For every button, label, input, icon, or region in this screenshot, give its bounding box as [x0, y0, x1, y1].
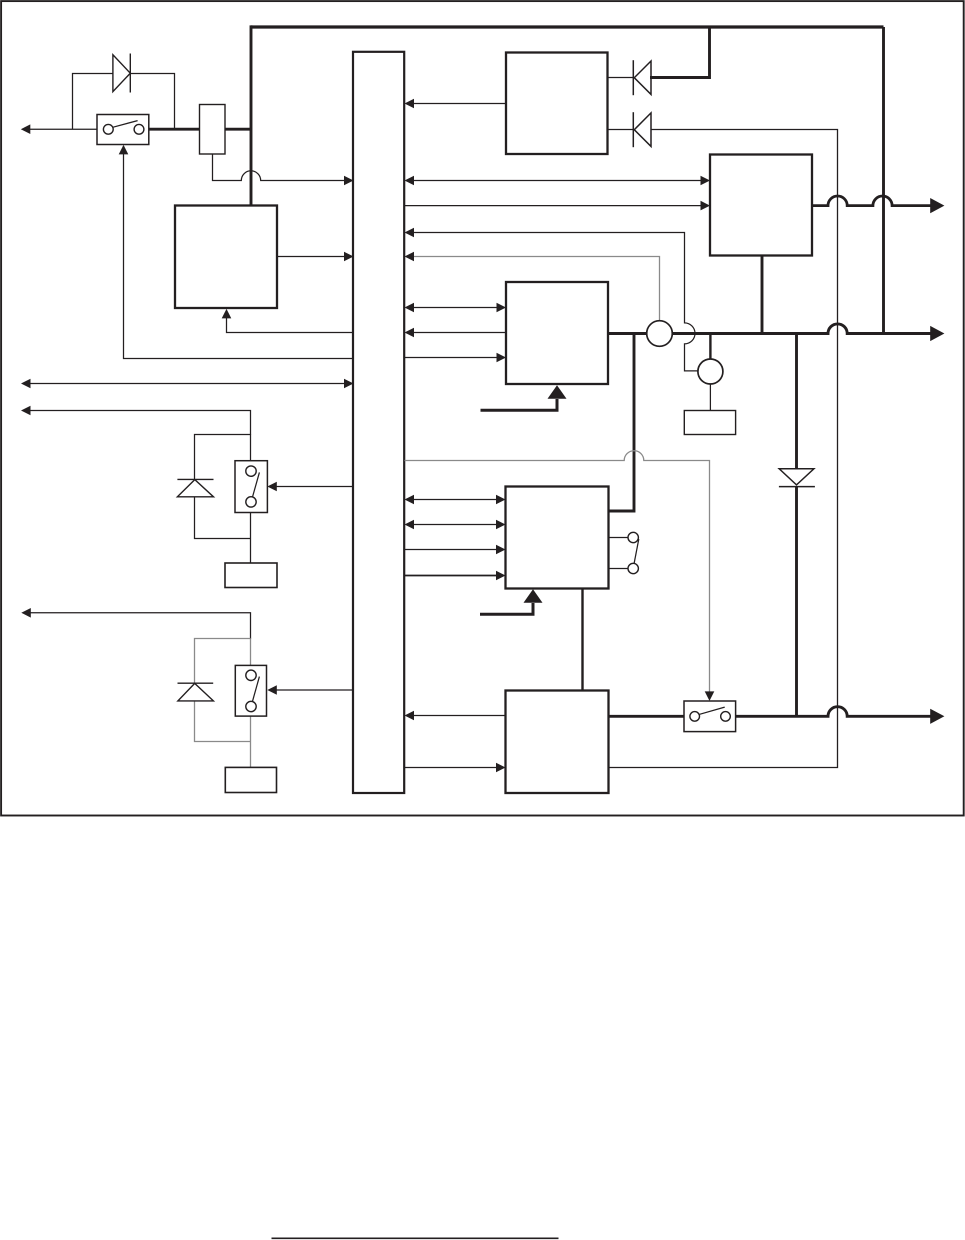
- wire: left output stub at switch S1: [29, 128, 97, 130]
- arrow left into bus y307.5: [405, 303, 415, 313]
- switch contacts S3 at B4 right: [609, 532, 639, 573]
- arrow left into bus y524.5: [405, 520, 415, 530]
- arrow left edge y410.5: [21, 406, 31, 416]
- wire: thick drop from rail to output bus O2: [882, 27, 885, 334]
- wire: D3 output right then long vertical down to block B5: [609, 130, 838, 768]
- switch S2 (G1): [235, 461, 267, 513]
- enable symbol into B4 bottom: [480, 603, 533, 614]
- arrow right into B3 y357.5: [497, 353, 507, 363]
- wire: B1 bottom control from main bus: [227, 314, 354, 333]
- circle C1 (on output bus O2): [647, 321, 673, 347]
- wire: S2 control from bus: [277, 486, 354, 488]
- arrow right into B2 y180.5: [701, 176, 711, 186]
- label box L2 (G2): [225, 767, 276, 792]
- wire: B1 output to main bus: [277, 256, 345, 258]
- wire: from component X1 bottom, hop over vertical, to main bus: [213, 154, 346, 181]
- wire: gray control from bus y460.5 hop over thick drop, down to switch S5: [405, 451, 710, 693]
- wire: bus y232.5 to circle C2 (corner, hop over O2): [413, 233, 698, 371]
- wire: left double arrow to bus y383.5: [29, 383, 345, 385]
- arrow left into bus y499.5: [405, 495, 415, 505]
- arrow right into main bus y180: [344, 176, 354, 186]
- switch S1: [97, 115, 149, 145]
- wire: left arrow from switch group G2 top y613: [29, 613, 251, 639]
- arrow left into S2: [267, 482, 277, 492]
- arrow right into B4 y499.5: [496, 495, 506, 505]
- switch S5 (on O3): [684, 701, 736, 732]
- wire: B5 output to bus y715.5: [413, 715, 506, 717]
- group G2 loop (gray): [195, 639, 251, 768]
- arrow output 1: [930, 198, 944, 213]
- arrow right into B3 y307.5: [497, 303, 507, 313]
- wire: bus to block B2 (double arrow y180.5): [413, 180, 701, 182]
- arrow up into B1 bottom: [222, 309, 232, 319]
- arrow left into S4: [267, 685, 277, 695]
- component X1 (small rectangle on thick wire): [200, 105, 226, 155]
- arrow left output S1: [21, 124, 31, 134]
- arrow right into bus y383.5: [344, 379, 354, 389]
- block B2: [710, 155, 812, 256]
- arrow down into S5: [705, 691, 715, 701]
- block B3: [506, 282, 608, 384]
- wire: G1 left leg lower: [195, 497, 251, 539]
- wire: B3 to bus y332.5: [413, 332, 506, 334]
- block B4: [506, 487, 609, 589]
- diode D2 (top): [633, 60, 651, 95]
- wire: bus to B3 y357.5: [405, 357, 498, 359]
- block B1: [175, 206, 277, 309]
- enable symbol into B3 bottom: [481, 399, 558, 410]
- wire: top thick rail horizontal: [251, 25, 884, 28]
- arrow left edge y613: [21, 608, 31, 618]
- label box LM: [684, 411, 735, 435]
- arrow left into bus y103.5: [405, 99, 415, 109]
- wire: B2 output with two hops to right edge arrow (output 1): [812, 196, 931, 206]
- wire: drop from O2 to circle C2 top: [709, 334, 711, 360]
- circle C2: [698, 359, 723, 384]
- diode D3 (second): [633, 112, 651, 147]
- wire: output line O3 from B5 right to right edge: [609, 707, 932, 717]
- arrow left into bus y256.5 gray line: [405, 252, 415, 262]
- arrow right into B4 y524.5: [496, 520, 506, 530]
- wire: output bus O2 thick from B3 right to right edge: [608, 324, 931, 334]
- border frame: [1, 1, 964, 815]
- diode D6 (G2): [178, 683, 214, 701]
- footer rule: [272, 1237, 559, 1239]
- block B5: [506, 691, 609, 794]
- arrow left into bus y180.5: [405, 176, 415, 186]
- wire: S1 control from bus: [124, 146, 354, 359]
- wire: BT to diode D2: [608, 77, 634, 79]
- wire: thick drop from rail to diode D2: [650, 27, 710, 78]
- wire: thick drop from O2 through diode D4 down to output line O3: [795, 334, 798, 469]
- wire: C2 bottom to label box LM: [709, 384, 711, 411]
- wire: bypass loop around S1 left leg: [73, 74, 113, 130]
- block BT (top block): [506, 53, 608, 155]
- arrow right into B2 y205.6: [701, 201, 711, 211]
- wire: bypass loop around S1 right leg: [131, 74, 175, 129]
- switch S4 (G2): [235, 665, 266, 716]
- label box L1 (G1): [225, 563, 277, 588]
- wire: thick drop from O2 to L-joint into B4 right: [609, 334, 635, 512]
- wire: BT to diode D3: [608, 129, 634, 131]
- diode D4 (vertical, pointing down): [779, 469, 815, 487]
- group G1: loop top: [195, 435, 251, 480]
- arrow output 3: [930, 709, 944, 724]
- arrow left into bus y232.5: [405, 228, 415, 238]
- wire: S4 control from bus: [277, 689, 354, 691]
- wire: bus-B4 double arrow y499.5: [413, 499, 497, 501]
- wire: bus to B5 y767.5: [405, 767, 498, 769]
- wire: BT output to main bus: [413, 103, 506, 105]
- arrow right into main bus y256.5: [344, 252, 354, 262]
- arrow right into B5 y767.5: [496, 763, 506, 773]
- wire: B4 bottom to B5 top: [581, 589, 583, 692]
- wire: bus to block B2 (y205.6): [405, 205, 702, 207]
- wire: B2 bottom to output bus O2: [761, 256, 764, 334]
- wire: gray line from bus y256.5 to circle C1: [409, 257, 660, 322]
- wire: bus to B4 y549.5: [405, 549, 498, 551]
- wire: G1 right leg through switch to label: [250, 435, 252, 564]
- arrow output 2: [930, 326, 944, 341]
- arrow left into bus y332.5: [405, 328, 415, 338]
- arrow right into B4 y575.5: [496, 571, 506, 581]
- arrow up into S1: [119, 145, 129, 155]
- arrow left into bus y715.5: [405, 711, 415, 721]
- wire: bus-B3 double arrow y307.5: [413, 307, 498, 309]
- wire: bus to B4 y575.5 (heavier): [405, 575, 498, 577]
- main bus (tall rectangle): [353, 52, 404, 793]
- arrow right into B4 y549.5: [496, 545, 506, 555]
- wire: bus-B4 double arrow y524.5: [413, 524, 497, 526]
- wire: thick vertical drop from rail to block B1 top: [250, 25, 253, 206]
- wire: D4 cathode down to O3: [795, 487, 798, 717]
- diode D1 (bypass over S1): [113, 54, 130, 93]
- wire: left arrow from switch group G1 top y410.5: [29, 411, 251, 436]
- arrow left edge y383.5: [21, 379, 31, 389]
- wire: thick from S1 to vertical drop: [149, 128, 251, 131]
- diode D5 (G1): [177, 479, 213, 496]
